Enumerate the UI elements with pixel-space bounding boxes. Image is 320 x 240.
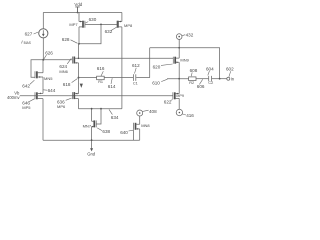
wire R2 to C2 bbox=[196, 78, 208, 80]
svg-text:638: 638 bbox=[102, 129, 110, 134]
wire MN8 gate to ground rail bbox=[133, 130, 135, 140]
svg-text:608: 608 bbox=[190, 68, 198, 73]
svg-text:408: 408 bbox=[149, 109, 157, 114]
Vb 400mv bias input bbox=[7, 91, 20, 100]
svg-text:MN7: MN7 bbox=[83, 124, 92, 129]
wire node 432 horizontal to In junction bbox=[150, 48, 220, 79]
label 634 bbox=[109, 109, 119, 119]
label 638 bbox=[97, 128, 110, 134]
wire R1 to C1 bbox=[104, 77, 133, 79]
resistor R1 bbox=[97, 76, 105, 84]
wire C1 to corner bbox=[136, 77, 150, 79]
wire MN7 drain connection bbox=[91, 109, 93, 122]
svg-text:Vdd: Vdd bbox=[74, 2, 82, 7]
transistor MP8 bbox=[117, 13, 133, 28]
svg-text:MP5: MP5 bbox=[22, 105, 31, 110]
svg-text:604: 604 bbox=[206, 66, 214, 71]
transistor MN8 bbox=[134, 123, 151, 130]
wire MN6 source down to node 618 bbox=[78, 63, 80, 78]
svg-text:610: 610 bbox=[152, 80, 160, 85]
compensation branch R1 C1 wire bbox=[79, 77, 97, 79]
wire MN6 drain to MN9 gate bbox=[79, 57, 174, 59]
Vdd supply terminal bbox=[74, 2, 82, 14]
svg-text:602: 602 bbox=[226, 66, 234, 71]
svg-text:MN6: MN6 bbox=[59, 69, 68, 74]
wire MN7 gate connection bbox=[96, 109, 101, 124]
current direction arrow at MP6 bbox=[80, 84, 83, 88]
svg-text:626: 626 bbox=[45, 50, 53, 55]
ground rail bbox=[43, 139, 140, 141]
svg-text:640: 640 bbox=[120, 130, 128, 135]
svg-text:MN9: MN9 bbox=[180, 58, 189, 63]
node 416 circle bbox=[176, 109, 194, 118]
capacitor C2 bbox=[208, 76, 213, 85]
label 620 bbox=[153, 64, 173, 70]
wire Vdd rail bbox=[43, 12, 122, 14]
transistor MP5 bbox=[35, 92, 43, 99]
current source 627 IBIAS bbox=[21, 13, 48, 60]
wire MP7 diode connection (drain to gate line) bbox=[79, 24, 101, 43]
wire MN7 source down through rail to ground bbox=[91, 127, 93, 149]
label 622 bbox=[164, 99, 173, 104]
wire MP7 gate to MP8 gate bbox=[85, 23, 117, 25]
label 604 bbox=[206, 66, 214, 75]
label 636 MP6 bbox=[57, 98, 72, 109]
label 642 bbox=[22, 80, 34, 88]
svg-text:642: 642 bbox=[22, 84, 30, 89]
wire MN9 drain up to node 432 line bbox=[178, 48, 180, 58]
svg-text:620: 620 bbox=[153, 65, 161, 70]
transistor MP9 bbox=[173, 92, 184, 99]
wire node 618 down to MP6 bbox=[78, 78, 80, 94]
node 408 circle bbox=[137, 109, 157, 116]
svg-text:612: 612 bbox=[132, 63, 140, 68]
transistor MN5 bbox=[35, 71, 53, 81]
label 630 bbox=[85, 17, 96, 23]
wire node 626 to MN6 gate bbox=[43, 59, 72, 61]
svg-text:MP8: MP8 bbox=[124, 23, 133, 28]
label 606 bbox=[197, 79, 205, 89]
svg-text:R2: R2 bbox=[189, 81, 194, 85]
svg-text:BIAS: BIAS bbox=[24, 41, 31, 45]
svg-text:618: 618 bbox=[63, 82, 71, 87]
wire MN5 source to MP5 (node 644) bbox=[42, 77, 44, 93]
ground symbol Gnd bbox=[87, 148, 96, 156]
label 644 bbox=[43, 88, 56, 93]
wire node 432 stem bbox=[178, 39, 180, 47]
node 626 junction bbox=[42, 50, 53, 60]
svg-text:R1: R1 bbox=[98, 80, 103, 84]
wire MN6 drain up to node 628 bbox=[78, 44, 80, 59]
wire Vb bias line to MP5 and MP6 gates bbox=[20, 95, 173, 97]
svg-text:MN5: MN5 bbox=[44, 76, 53, 81]
wire MP9 drain down to node 416 bbox=[178, 98, 180, 109]
wire MN9 source down to node 610 bbox=[178, 62, 180, 78]
label 610 bbox=[152, 79, 167, 85]
svg-text:432: 432 bbox=[186, 33, 194, 38]
svg-text:400mv: 400mv bbox=[7, 95, 20, 100]
svg-text:C2: C2 bbox=[208, 81, 213, 85]
node 610 wire bbox=[167, 78, 189, 80]
wire down to C1 bbox=[149, 48, 151, 78]
svg-text:614: 614 bbox=[108, 84, 116, 89]
svg-text:628: 628 bbox=[62, 37, 70, 42]
label 646 MP5 bbox=[22, 99, 34, 110]
wire MP9 source up to node 610 bbox=[178, 79, 180, 94]
svg-text:627: 627 bbox=[25, 31, 33, 36]
resistor R2 bbox=[189, 77, 196, 85]
transistor MN6 bbox=[72, 57, 78, 64]
node 432 circle bbox=[176, 33, 193, 40]
wire MP6 drain down to MN7 node bbox=[78, 99, 80, 109]
In terminal circle bbox=[227, 76, 235, 81]
svg-text:C1: C1 bbox=[133, 81, 138, 85]
svg-text:In: In bbox=[231, 76, 235, 81]
wire node 408 down to MN8 drain bbox=[139, 116, 141, 124]
transistor MP7 bbox=[69, 13, 85, 44]
svg-text:416: 416 bbox=[186, 113, 194, 118]
svg-text:MP7: MP7 bbox=[69, 22, 78, 27]
svg-text:606: 606 bbox=[197, 84, 205, 89]
svg-text:644: 644 bbox=[48, 88, 56, 93]
wire MP5 source down to ground rail bbox=[42, 99, 44, 141]
label 628 bbox=[62, 37, 78, 43]
label 608 bbox=[190, 68, 198, 76]
svg-text:MP9: MP9 bbox=[176, 94, 184, 98]
wire C2 to In terminal bbox=[212, 78, 227, 80]
svg-text:MN8: MN8 bbox=[141, 123, 150, 128]
label 602 bbox=[226, 66, 234, 76]
label 632 bbox=[105, 27, 117, 34]
label 614 bbox=[108, 78, 116, 89]
label 624 MN6 bbox=[59, 58, 71, 74]
svg-text:MP6: MP6 bbox=[57, 104, 66, 109]
node 618 junction bbox=[63, 77, 80, 88]
wire MP8 drain down bbox=[121, 27, 123, 109]
wire node 626 left branch down to MN5 gate bbox=[31, 60, 43, 78]
transistor MN7 bbox=[83, 120, 97, 128]
capacitor C1 bbox=[133, 74, 138, 85]
label 640 bbox=[120, 130, 133, 135]
label 612 bbox=[132, 63, 140, 73]
wire MN7 diode node horizontal bbox=[79, 108, 122, 110]
transistor MN9 bbox=[173, 57, 189, 64]
transistor MP6 bbox=[72, 92, 78, 99]
svg-text:Gnd: Gnd bbox=[87, 151, 96, 156]
label 616 bbox=[97, 66, 105, 76]
svg-text:634: 634 bbox=[111, 115, 119, 120]
wire node 626 down to MN5 drain bbox=[42, 60, 44, 73]
svg-text:630: 630 bbox=[89, 17, 97, 22]
svg-text:616: 616 bbox=[97, 66, 105, 71]
wire MN8 source to ground rail bbox=[139, 129, 141, 140]
